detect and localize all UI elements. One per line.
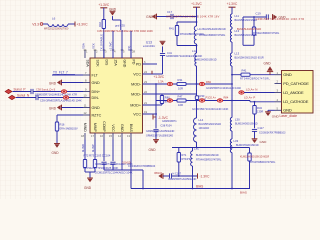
svg-text:GND: GND — [260, 140, 268, 144]
svg-text:H C107: H C107 — [173, 173, 182, 176]
svg-text:L11: L11 — [235, 14, 240, 18]
svg-text:VCC: VCC — [111, 124, 115, 132]
svg-text:GND: GND — [264, 61, 272, 65]
svg-text:L71: L71 — [194, 147, 199, 151]
svg-text:emt1011: emt1011 — [143, 44, 155, 48]
svg-text:ERA-3AEB103V: ERA-3AEB103V — [60, 128, 79, 131]
svg-text:GCM155R71C104KA14D 104K: GCM155R71C104KA14D 104K — [206, 87, 241, 90]
svg-text:+3.3VC: +3.3VC — [77, 22, 89, 26]
svg-text:1.3A: 1.3A — [158, 80, 164, 84]
svg-text:GND: GND — [49, 106, 57, 110]
svg-text:BLM15HG601SN1D 601R: BLM15HG601SN1D 601R — [235, 56, 264, 59]
svg-text:DIN-: DIN- — [92, 96, 100, 100]
svg-text:GRM155R71C104KE14D 104K X7R: GRM155R71C104KE14D 104K X7R — [256, 17, 305, 21]
svg-text:MOD-: MOD- — [131, 82, 142, 86]
svg-text:BLM15HG601SN1D: BLM15HG601SN1D — [199, 123, 222, 126]
svg-text:SDA: SDA — [85, 60, 89, 68]
svg-text:SDA: SDA — [82, 43, 86, 49]
svg-text:MIND: MIND — [83, 123, 87, 132]
svg-text:BLM15HG601SN1D: BLM15HG601SN1D — [196, 154, 219, 157]
svg-text:Sunul_N: Sunul_N — [17, 93, 30, 97]
svg-text:BIAS: BIAS — [129, 124, 133, 133]
svg-text:C19: C19 — [256, 12, 262, 16]
svg-text:GCM155R71C104KA14D 104K: GCM155R71C104KA14D 104K — [192, 107, 229, 111]
svg-text:gnd C35: gnd C35 — [115, 24, 125, 28]
svg-text:L11 BLM15HG601SN1D: L11 BLM15HG601SN1D — [198, 27, 226, 31]
svg-text:MPZ2012S300A2T000: MPZ2012S300A2T000 — [44, 27, 69, 30]
svg-text:PD: PD — [131, 60, 135, 65]
svg-text:GRM033R71A104KE14D 104K: GRM033R71A104KE14D 104K — [166, 54, 202, 58]
svg-text:C117: C117 — [258, 126, 265, 130]
svg-text:VCC: VCC — [133, 72, 141, 76]
svg-text:28: 28 — [132, 50, 135, 54]
svg-text:L33: L33 — [234, 139, 239, 143]
svg-text:GND: GND — [92, 81, 101, 85]
svg-text:SCK: SCK — [95, 60, 99, 68]
svg-text:C39 GRM033R71A104KE14D 104K: C39 GRM033R71A104KE14D 104K — [40, 99, 82, 103]
svg-text:GND: GND — [283, 108, 292, 113]
svg-text:17: 17 — [91, 134, 94, 138]
svg-text:COMP: COMP — [102, 121, 106, 132]
svg-text:M-INP: M-INP — [91, 144, 95, 152]
svg-text:BIAS: BIAS — [196, 184, 203, 188]
svg-text:DIS: DIS — [104, 60, 108, 67]
svg-text:RT04HCBRD0747SRL: RT04HCBRD0747SRL — [250, 161, 276, 164]
svg-text:GND: GND — [109, 7, 117, 11]
svg-text:+1.3VC: +1.3VC — [191, 2, 202, 6]
svg-text:L6: L6 — [52, 17, 56, 21]
svg-text:R47: R47 — [178, 95, 183, 99]
svg-text:R84: R84 — [224, 96, 229, 100]
svg-text:GND: GND — [84, 186, 92, 190]
svg-text:P1D2.A+: P1D2.A+ — [206, 96, 217, 100]
svg-text:CC0402KKX7R9BB104: CC0402KKX7R9BB104 — [128, 164, 156, 168]
svg-text:13: 13 — [127, 134, 130, 138]
svg-text:R31: R31 — [178, 78, 183, 82]
svg-text:LD_ANODE: LD_ANODE — [283, 90, 304, 95]
svg-text:VCC: VCC — [133, 112, 141, 116]
svg-text:RN73H1ETTP1003F25 100K: RN73H1ETTP1003F25 100K — [84, 166, 119, 170]
svg-text:GRM155R71A105KE14D: GRM155R71A105KE14D — [168, 178, 197, 181]
svg-text:Laser_diode: Laser_diode — [280, 114, 298, 118]
svg-text:DIN+: DIN+ — [92, 90, 101, 94]
svg-text:18: 18 — [81, 134, 84, 138]
svg-text:R84: R84 — [206, 80, 211, 84]
svg-text:GND: GND — [122, 60, 126, 68]
svg-text:LD_CATHODE: LD_CATHODE — [283, 99, 309, 104]
svg-text:14: 14 — [118, 134, 121, 138]
svg-text:PD_CATHODE: PD_CATHODE — [283, 81, 309, 86]
svg-text:CC0603KRX7R9BB103: CC0603KRX7R9BB103 — [259, 132, 286, 135]
svg-text:V3.3: V3.3 — [32, 22, 39, 26]
svg-text:R16: R16 — [60, 123, 65, 127]
svg-text:+1.3VC: +1.3VC — [154, 75, 165, 79]
svg-text:GRM033R71A105KE14D: GRM033R71A105KE14D — [146, 134, 173, 137]
svg-text:RT04HC: RT04HC — [182, 158, 192, 161]
svg-text:C38 Sunul_D+ 9: C38 Sunul_D+ 9 — [36, 87, 56, 91]
svg-text:TX_FLT_7: TX_FLT_7 — [53, 71, 68, 75]
svg-text:L13: L13 — [235, 51, 240, 55]
svg-text:GCM1D: GCM1D — [122, 161, 131, 164]
svg-text:R72 R73 C103 DC104: R72 R73 C103 DC104 — [84, 154, 111, 158]
svg-text:GND: GND — [92, 106, 101, 110]
svg-text:10R: 10R — [178, 87, 183, 91]
svg-text:-1.3VC: -1.3VC — [200, 175, 211, 179]
svg-text:+1.3VC: +1.3VC — [109, 42, 113, 51]
svg-text:GND: GND — [272, 114, 280, 118]
svg-text:GND: GND — [149, 148, 157, 152]
svg-text:C38 F104: C38 F104 — [161, 125, 173, 128]
svg-text:C41: C41 — [167, 51, 172, 55]
svg-text:C35 GRM155R71A104KE14D X7R 040: C35 GRM155R71A104KE14D X7R 0402 104K — [97, 29, 153, 33]
svg-text:RT04HCBRD0747SRL: RT04HCBRD0747SRL — [196, 158, 222, 161]
svg-text:R18: R18 — [98, 22, 102, 27]
svg-text:GND: GND — [283, 72, 292, 77]
svg-text:GND: GND — [49, 81, 57, 85]
svg-text:L30: L30 — [235, 117, 240, 121]
svg-text:BLM15HG601SN1D: BLM15HG601SN1D — [237, 27, 261, 31]
svg-text:GND: GND — [52, 151, 60, 155]
svg-text:R71: R71 — [182, 153, 187, 157]
svg-text:GRM033R71: GRM033R71 — [162, 120, 177, 123]
svg-text:L14: L14 — [199, 118, 204, 122]
svg-text:PD: PD — [136, 62, 141, 66]
svg-text:FLT: FLT — [92, 73, 99, 77]
svg-text:+1.3VC: +1.3VC — [227, 2, 238, 6]
svg-text:GND: GND — [120, 124, 124, 132]
svg-text:LD.A+ P: LD.A+ P — [244, 96, 255, 100]
svg-text:R41: R41 — [169, 27, 174, 31]
svg-text:RZTC: RZTC — [92, 113, 102, 117]
svg-text:MINP: MINP — [93, 123, 97, 132]
svg-text:GRM155R71A105KE14D: GRM155R71A105KE14D — [146, 130, 175, 133]
svg-text:BLM15HG601SN1D: BLM15HG601SN1D — [236, 144, 259, 147]
svg-text:SCK: SCK — [92, 43, 96, 49]
svg-text:RT04HCBRD0747SRL: RT04HCBRD0747SRL — [199, 33, 226, 37]
svg-text:GRM155R71A104KE14D 104K X7R 16: GRM155R71A104KE14D 104K X7R 16V — [166, 15, 220, 19]
svg-text:25A: 25A — [113, 60, 117, 67]
svg-text:KLM15HG601SN1D 601R: KLM15HG601SN1D 601R — [240, 156, 269, 159]
svg-text:10R: 10R — [178, 103, 183, 107]
svg-text:BIAS: BIAS — [240, 191, 247, 195]
svg-text:R41: R41 — [242, 69, 247, 73]
svg-text:10KA01D: 10KA01D — [199, 127, 210, 130]
svg-text:L12: L12 — [192, 49, 197, 53]
svg-text:MOD-: MOD- — [131, 92, 142, 96]
svg-text:RT04HCBRD0747SRL: RT04HCBRD0747SRL — [240, 78, 270, 81]
svg-text:RT04HCBRD0747SRL: RT04HCBRD0747SRL — [253, 31, 280, 35]
svg-text:16: 16 — [100, 134, 103, 138]
svg-text:BLM15HG601SN1D: BLM15HG601SN1D — [194, 59, 217, 62]
svg-text:10: 10 — [84, 94, 87, 98]
svg-text:C17: C17 — [167, 10, 173, 14]
svg-text:DCM155R71C104KA01D 104K: DCM155R71C104KA01D 104K — [95, 170, 133, 174]
svg-text:M-IND: M-IND — [81, 144, 85, 152]
svg-text:(P2): (P2) — [127, 46, 131, 51]
svg-text:LD.A+ N: LD.A+ N — [246, 88, 257, 92]
svg-text:MOD+: MOD+ — [130, 103, 141, 107]
svg-text:R34: R34 — [257, 106, 262, 110]
svg-text:GRM033R71A104KE14D 104K X7R: GRM033R71A104KE14D 104K X7R — [35, 93, 77, 97]
svg-text:TX_DISABLE: TX_DISABLE — [100, 34, 104, 51]
svg-text:R33: R33 — [200, 94, 205, 98]
svg-text:15: 15 — [109, 134, 112, 138]
svg-text:130R: 130R — [257, 110, 263, 114]
svg-text:12: 12 — [84, 111, 87, 115]
svg-text:Sunul_P: Sunul_P — [14, 87, 26, 91]
